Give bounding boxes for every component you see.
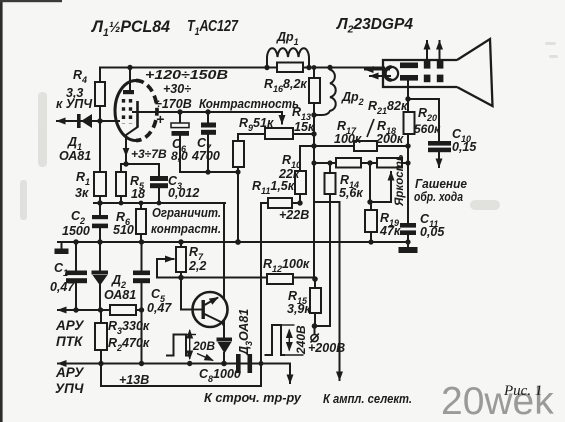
svg-text:Гашение: Гашение xyxy=(415,177,467,191)
svg-text:47к: 47к xyxy=(379,224,401,238)
wire x261 column R11 to bus xyxy=(260,203,262,386)
wire R1 bottom stub xyxy=(99,196,101,203)
capacitor C1 xyxy=(66,271,87,284)
capacitor C10 xyxy=(428,141,451,152)
svg-text:+30÷: +30÷ xyxy=(163,82,191,96)
wire row y202 xyxy=(314,201,340,203)
wire C2 branch xyxy=(99,203,101,242)
wire R5 stubs xyxy=(120,164,122,203)
svg-text:+13В: +13В xyxy=(119,373,149,387)
wire K ampl column x339 xyxy=(339,202,341,380)
CRT cathode xyxy=(385,67,398,80)
capacitor C6 (electrolytic, hollow top plate) xyxy=(171,123,189,136)
choke Dr2 xyxy=(314,67,336,115)
svg-text:100к: 100к xyxy=(334,132,362,146)
capacitor C7 xyxy=(201,123,216,135)
resistor R12 xyxy=(267,274,293,284)
capacitor C2 xyxy=(92,215,108,228)
svg-text:2,2: 2,2 xyxy=(188,259,206,273)
svg-text:18: 18 xyxy=(131,187,145,201)
tube L1 anode xyxy=(123,90,134,94)
svg-text:Контрастность: Контрастность xyxy=(199,97,299,111)
wire row y203 xyxy=(94,202,225,204)
wire left ground stub xyxy=(61,242,63,249)
diode D3 xyxy=(217,338,233,354)
wire C6 stubs xyxy=(179,112,181,172)
svg-text:4700: 4700 xyxy=(191,149,220,163)
svg-text:обр. хода: обр. хода xyxy=(414,190,463,204)
svg-text:8,0: 8,0 xyxy=(171,149,188,163)
resistor R15 xyxy=(310,288,321,313)
svg-text:200к: 200к xyxy=(375,132,404,146)
svg-text:1500: 1500 xyxy=(62,224,90,238)
capacitor C11 xyxy=(400,223,416,235)
wire CRT anode arrow 2 xyxy=(439,41,441,58)
svg-text:+120÷150В: +120÷150В xyxy=(145,68,228,82)
wire R15 bottom stub xyxy=(314,313,316,326)
svg-text:15к: 15к xyxy=(294,120,315,134)
wire ARU UPCH line xyxy=(58,363,290,365)
resistor R4 xyxy=(95,82,105,106)
terminal O +200V xyxy=(311,334,319,343)
svg-text:+22В: +22В xyxy=(279,208,309,222)
svg-text:0,47: 0,47 xyxy=(147,301,172,315)
wire R7 column and base lead xyxy=(181,242,192,310)
svg-text:Яркость: Яркость xyxy=(394,154,406,207)
svg-text:АРУ: АРУ xyxy=(55,318,84,333)
resistor R8 xyxy=(233,141,244,167)
wire O terminal stub xyxy=(314,326,316,334)
wire D3 bottom stub xyxy=(223,353,225,364)
choke Dr1 xyxy=(267,48,309,67)
wire row y146 R21 xyxy=(300,145,408,147)
tube L1 cathode arrow xyxy=(123,148,130,157)
wire left column R4-D1-R1 xyxy=(99,106,101,172)
svg-text:0,15: 0,15 xyxy=(452,140,477,154)
CRT L2 neck and funnel xyxy=(383,39,493,106)
wire R6 stubs xyxy=(140,203,142,242)
wire wiper row to R19 xyxy=(370,201,391,203)
wire tube cathode lead xyxy=(126,127,138,164)
wire K stroch drop xyxy=(289,364,291,384)
svg-text:к УПЧ: к УПЧ xyxy=(56,97,93,111)
resistor R21 xyxy=(354,141,377,151)
svg-text:контрастн.: контрастн. xyxy=(151,222,221,236)
wire collector to D3 xyxy=(223,319,225,338)
svg-text:0,012: 0,012 xyxy=(168,186,199,200)
wire R2 stubs xyxy=(100,310,102,364)
wire R10 bottom stub xyxy=(299,194,301,203)
resistor R16 xyxy=(277,63,303,73)
wire C3 stubs xyxy=(158,164,160,203)
svg-text:5,6к: 5,6к xyxy=(339,186,363,200)
resistor R2 xyxy=(95,323,107,350)
svg-text:+3÷7В: +3÷7В xyxy=(131,147,167,161)
annotation arrow 20V xyxy=(197,354,213,361)
CRT grid bars xyxy=(400,61,443,82)
resistor R14 xyxy=(325,173,336,194)
scan border left edge xyxy=(0,0,3,422)
scan noise smudges xyxy=(20,42,558,220)
wire grid line y112 xyxy=(133,111,282,113)
wire heater arrow upper xyxy=(365,69,389,71)
svg-text:240В: 240В xyxy=(294,325,308,355)
resistor R18 xyxy=(377,158,402,168)
tube L1 cathode xyxy=(136,101,139,127)
resistor R7 xyxy=(176,247,186,272)
wire R9 wiper arrow xyxy=(281,112,283,124)
resistor R6 xyxy=(136,209,146,234)
svg-text:УПЧ: УПЧ xyxy=(55,381,84,396)
wire D1 line to tube grid xyxy=(57,120,119,122)
svg-text:20В: 20В xyxy=(192,339,215,353)
wire C10 branch xyxy=(408,99,439,167)
svg-text:К строч. тр-ру: К строч. тр-ру xyxy=(204,390,302,405)
wire brightness wiper arrow xyxy=(390,172,392,202)
wire cathode row y164 xyxy=(121,163,159,165)
pulse waveform 20V xyxy=(166,330,196,359)
svg-text:÷170В: ÷170В xyxy=(155,97,192,111)
wire ground bus y242 xyxy=(58,241,408,243)
wire video column x314 xyxy=(313,68,315,280)
capacitor C3 xyxy=(150,176,168,188)
wire R9 right to video line xyxy=(293,133,314,135)
ground right xyxy=(399,247,418,253)
svg-text:Ограничит.: Ограничит. xyxy=(152,206,221,220)
wire CRT anode arrow 1 xyxy=(426,41,428,58)
wire CRT grid column x408 xyxy=(407,81,409,242)
wire R8 top to R9 xyxy=(238,133,265,135)
wire anode drop to tube xyxy=(129,68,131,91)
wire top supply bus xyxy=(100,68,384,83)
wire +13V loop xyxy=(101,364,261,387)
tube L1 grids xyxy=(124,99,131,124)
wire D2 branch xyxy=(99,242,101,310)
wire R11 line xyxy=(261,202,300,204)
svg-text:К ампл. селект.: К ампл. селект. xyxy=(323,391,412,406)
wire emitter column x224 xyxy=(223,203,225,299)
svg-text:+: + xyxy=(156,111,164,127)
tube L1 envelope xyxy=(115,81,157,141)
wire heater arrow lower xyxy=(370,75,390,77)
svg-text:3,9к: 3,9к xyxy=(287,302,311,316)
svg-text:АРУ: АРУ xyxy=(55,365,84,380)
svg-text:560к: 560к xyxy=(414,122,441,136)
wire R19 stubs xyxy=(370,202,372,242)
svg-text:+200В: +200В xyxy=(308,341,345,355)
svg-text:Л223DGP4: Л223DGP4 xyxy=(336,16,413,36)
wire ARU PTK line xyxy=(58,309,110,311)
resistor R3 xyxy=(110,305,136,315)
resistor R5 xyxy=(116,172,126,196)
svg-text:ОА81: ОА81 xyxy=(104,288,136,302)
wire row y172 xyxy=(180,171,238,173)
label slash R17 R18 xyxy=(367,119,374,137)
resistor R19 xyxy=(365,210,377,232)
capacitor C8 xyxy=(236,354,252,373)
pulse waveform 240V xyxy=(265,325,304,355)
resistor R17 xyxy=(336,158,361,168)
diode D1 xyxy=(77,114,92,128)
wire C7 stubs xyxy=(207,112,209,172)
wire C1 branch xyxy=(75,242,77,310)
wire R8 column x238 xyxy=(237,134,239,242)
transistor T1 xyxy=(192,292,228,327)
wire brightness wiper junction xyxy=(369,163,371,202)
wire row y163 R17 R18 xyxy=(314,162,408,164)
svg-text:ОА81: ОА81 xyxy=(59,149,91,163)
svg-text:ПТК: ПТК xyxy=(56,334,84,349)
resistor R9 xyxy=(265,128,293,139)
wire row y277.5 wiper to R12 xyxy=(157,277,315,279)
svg-text:Л1½PCL84: Л1½PCL84 xyxy=(90,17,170,39)
diode D2 xyxy=(92,271,109,286)
wire R14 column x330 xyxy=(315,163,331,326)
resistor R13 xyxy=(309,78,320,103)
scan border top-left edge xyxy=(0,0,62,2)
wire C5 branch xyxy=(141,242,143,364)
resistor R20 xyxy=(404,112,415,134)
wire R10 top stub xyxy=(299,146,301,171)
svg-text:510: 510 xyxy=(113,223,134,237)
wire R15 top stub xyxy=(314,279,316,288)
svg-text:0,47: 0,47 xyxy=(50,280,75,294)
resistor R10 xyxy=(295,171,306,194)
capacitor C5 xyxy=(133,271,150,284)
wire right ground stub xyxy=(407,242,409,247)
svg-text:Рис. 1: Рис. 1 xyxy=(503,383,542,399)
wire R7 wiper loop xyxy=(157,259,174,278)
resistor R1 xyxy=(94,172,106,196)
svg-text:0,05: 0,05 xyxy=(420,225,445,239)
svg-text:3к: 3к xyxy=(75,186,89,200)
ground left xyxy=(55,249,69,255)
resistor R11 xyxy=(268,198,292,208)
